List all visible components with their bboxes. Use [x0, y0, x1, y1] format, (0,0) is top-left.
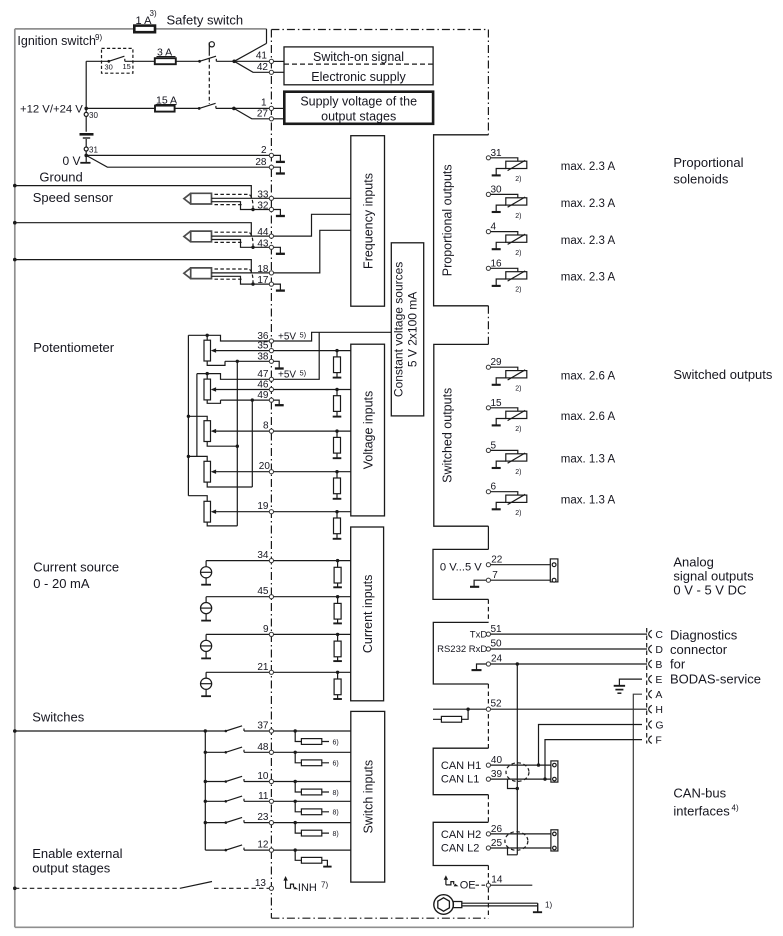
- sensor 3 wires: [212, 273, 272, 284]
- pot R5 bottom wire to ground bus: [207, 522, 237, 526]
- box Switch-on signal / Electronic supply: [284, 47, 433, 85]
- wire I3 to pin 9: [206, 633, 271, 635]
- svg-text:Diagnostics: Diagnostics: [670, 627, 738, 642]
- svg-text:OE: OE: [460, 880, 476, 892]
- pot R3 wiper to pin 8: [214, 430, 272, 432]
- pin 22 wire: [491, 564, 551, 566]
- svg-text:41: 41: [256, 51, 268, 62]
- pot R4: [204, 461, 211, 482]
- svg-text:2): 2): [515, 287, 521, 294]
- svg-text:8: 8: [263, 420, 269, 431]
- speed sensor group: [13, 184, 351, 291]
- pin labels top-left: [255, 51, 268, 168]
- pin 32 internal ground: [271, 210, 280, 216]
- pin 8 wire: [271, 430, 350, 432]
- svg-text:0 - 20 mA: 0 - 20 mA: [33, 576, 90, 591]
- svg-text:32: 32: [257, 201, 269, 212]
- svg-text:48: 48: [257, 742, 269, 753]
- svg-text:37: 37: [257, 721, 269, 732]
- svg-text:G: G: [655, 719, 663, 731]
- pin circles right connector row: [486, 156, 490, 888]
- svg-text:1): 1): [545, 901, 552, 910]
- pin 12 wire: [271, 849, 350, 851]
- output enable row: [434, 875, 553, 915]
- svg-text:27: 27: [257, 108, 269, 119]
- svg-text:8): 8): [333, 831, 339, 838]
- outer ground frame (gray): [15, 29, 634, 927]
- sensor 2 wires: [212, 236, 272, 247]
- analog output connector: [550, 559, 558, 582]
- svg-text:2): 2): [515, 213, 521, 220]
- svg-text:44: 44: [257, 227, 269, 238]
- resistor pin21: [336, 671, 339, 674]
- label Analog signal outputs: [673, 555, 754, 598]
- svg-text:0 V...5 V: 0 V...5 V: [440, 562, 482, 574]
- svg-text:29: 29: [491, 357, 503, 368]
- label Ignition switch 9): [17, 33, 102, 48]
- sensor 2 feed wire: [13, 221, 17, 225]
- pin 45 wire: [271, 596, 350, 598]
- node 0V: [84, 154, 88, 158]
- connector socket E: [649, 675, 652, 683]
- pin 20 wire: [271, 471, 350, 473]
- cable lug: [453, 902, 462, 908]
- wire pin 26: [491, 833, 551, 835]
- svg-text:INH: INH: [298, 882, 317, 894]
- svg-text:42: 42: [257, 62, 269, 73]
- CAN2 shield stub: [508, 789, 518, 855]
- svg-text:CAN H2: CAN H2: [441, 829, 481, 841]
- svg-text:Switch inputs: Switch inputs: [362, 760, 376, 834]
- battery lower column: [85, 139, 87, 163]
- node resistor junction pin52: [466, 708, 469, 711]
- block Voltage inputs: [351, 344, 385, 516]
- node F junction: [543, 777, 546, 780]
- svg-text:2: 2: [261, 145, 267, 156]
- svg-text:31: 31: [491, 148, 503, 159]
- svg-text:7: 7: [492, 570, 498, 581]
- svg-text:50: 50: [491, 639, 503, 650]
- svg-text:9: 9: [263, 624, 269, 635]
- svg-text:1: 1: [261, 97, 267, 108]
- resistor pin19: [335, 510, 338, 513]
- wire pin 51 to connector C: [491, 633, 647, 635]
- svg-text:F: F: [655, 734, 661, 746]
- svg-text:C: C: [655, 629, 663, 641]
- resistor row37: [294, 729, 297, 732]
- boundary solid connector: [487, 344, 489, 526]
- wire pin 24 to connector B: [491, 663, 647, 665]
- svg-text:6: 6: [491, 482, 497, 493]
- svg-text:A: A: [655, 689, 662, 701]
- svg-text:45: 45: [257, 586, 269, 597]
- resistor pin35: [335, 349, 338, 352]
- pot R5: [204, 501, 211, 522]
- pot R5 wiper to pin 19: [214, 511, 272, 513]
- svg-text:CAN H1: CAN H1: [441, 760, 481, 772]
- label Current source 0-20mA: [33, 560, 119, 592]
- wire contact to fuse 3A: [125, 60, 155, 62]
- pot R2: [204, 379, 211, 400]
- svg-text:max. 2.6 A: max. 2.6 A: [561, 411, 616, 423]
- OE input symbol: [445, 878, 447, 885]
- svg-text:6): 6): [333, 761, 339, 768]
- current source I4: [205, 672, 207, 696]
- svg-text:Proportional outputs: Proportional outputs: [441, 164, 455, 276]
- pot R4 top wire to bus A: [188, 456, 207, 461]
- wire contact to junction: [216, 107, 234, 109]
- switch bus vertical: [204, 731, 206, 850]
- svg-text:BODAS-service: BODAS-service: [670, 671, 761, 686]
- block Proportional outputs: [434, 135, 489, 306]
- solenoid output pin 30: [491, 184, 616, 219]
- resistor row12: [294, 848, 297, 851]
- sensor 2 wire into ECU pin44: [271, 214, 350, 236]
- resistor pin20: [335, 470, 338, 473]
- svg-text:Switch-on signal: Switch-on signal: [313, 50, 404, 64]
- pot R2 bottom wire to pin 49: [207, 400, 271, 403]
- svg-text:38: 38: [257, 351, 269, 362]
- switch S11: [204, 800, 207, 803]
- pot R1 bottom wire to pin 38: [207, 361, 271, 365]
- pin 17 internal ground: [271, 284, 280, 290]
- svg-text:max. 2.3 A: max. 2.3 A: [561, 272, 616, 284]
- svg-text:34: 34: [257, 550, 269, 561]
- svg-text:max. 2.3 A: max. 2.3 A: [561, 161, 616, 173]
- pin 43 internal ground: [271, 247, 280, 253]
- pot R2 wiper to pin 46: [214, 389, 272, 391]
- wire contact to junction node: [216, 60, 234, 62]
- svg-text:40: 40: [491, 755, 503, 766]
- pot R3 top wire to bus A: [188, 416, 207, 420]
- ECU boundary dash-dot right upper: [487, 30, 489, 135]
- svg-text:31: 31: [89, 146, 98, 155]
- svg-text:connector: connector: [670, 642, 728, 657]
- wire safety switch drop (gray feed into node): [234, 29, 266, 61]
- svg-text:Ignition switch: Ignition switch: [17, 34, 96, 48]
- sensor 1 feed wire from frame: [13, 184, 17, 188]
- wire I2 to pin 45: [206, 596, 271, 598]
- wire G to CAN H1: [539, 725, 643, 766]
- switch S37 blade: [226, 726, 272, 731]
- svg-text:max. 2.6 A: max. 2.6 A: [561, 371, 616, 383]
- pot R4 ground return vertical: [251, 400, 253, 487]
- svg-text:9): 9): [95, 33, 102, 42]
- block analog output 0V..5V: [433, 549, 488, 599]
- INH input symbol: [285, 879, 287, 889]
- pot R3 bottom wire to ground bus: [207, 442, 237, 447]
- svg-text:11: 11: [258, 791, 269, 802]
- svg-text:15: 15: [123, 62, 131, 71]
- pin 1 stub: [271, 107, 284, 109]
- switch input wires and pull resistors: [271, 729, 350, 894]
- wire I4 to pin 21: [206, 671, 271, 673]
- node +24V junction: [84, 107, 88, 111]
- svg-text:max. 1.3 A: max. 1.3 A: [561, 494, 616, 506]
- ignition switch S1 dashed enclosure: [102, 48, 133, 73]
- node junction 3A row: [232, 60, 236, 64]
- pin 52 wire to connector H: [433, 708, 647, 710]
- pin labels 22 7: [491, 555, 503, 582]
- right side ECU blocks: [433, 135, 488, 918]
- ignition switch contact blade: [109, 56, 125, 61]
- svg-text:30: 30: [105, 63, 113, 72]
- block Constant voltage sources: [391, 243, 423, 416]
- switch S12: [205, 845, 271, 850]
- connector socket B: [649, 660, 652, 668]
- svg-text:RS232 RxD: RS232 RxD: [437, 644, 487, 655]
- label Proportional solenoids: [673, 155, 743, 187]
- pin 28 internal ground: [271, 167, 280, 173]
- pot R4 bottom wire: [207, 482, 252, 487]
- pin 11 wire: [271, 800, 350, 802]
- switch feed wire from frame: [13, 729, 17, 733]
- internal function blocks: [351, 136, 424, 882]
- connector socket D: [649, 645, 652, 653]
- wire pin 50 to connector D: [491, 648, 647, 650]
- pin 24 internal ground: [477, 664, 487, 670]
- wire node to pin 1: [234, 107, 269, 109]
- svg-text:8): 8): [333, 790, 339, 797]
- svg-text:26: 26: [491, 824, 503, 835]
- sensor 2 body: [184, 231, 212, 242]
- pot R1: [204, 340, 211, 361]
- sensor pin labels: [257, 189, 269, 286]
- enable input dashed wire: [13, 887, 17, 891]
- svg-text:2): 2): [515, 426, 521, 433]
- bolt ground stud: [434, 895, 454, 915]
- solenoid output pin 4: [491, 222, 616, 257]
- svg-text:for: for: [670, 657, 686, 672]
- wire node to pin 41: [234, 60, 269, 62]
- svg-text:20: 20: [259, 461, 271, 472]
- svg-text:Safety switch: Safety switch: [167, 13, 244, 28]
- CAN1 twisted pair dashed ellipse: [506, 763, 529, 782]
- fuse F1 1A safety switch: [134, 26, 155, 33]
- sensor 3 body: [184, 268, 212, 279]
- ECU boundary dash-dot left: [270, 30, 272, 919]
- pin 9 wire: [271, 633, 350, 635]
- node pin24 shield junction: [516, 662, 519, 665]
- input divider resistors voltage section: [333, 349, 342, 539]
- pin 37 wire: [271, 730, 350, 732]
- potentiometer section: [33, 330, 391, 526]
- switched output pin 6: [491, 482, 616, 517]
- resistor row48: [294, 751, 297, 754]
- sensor 3 wire into ECU pin18: [271, 230, 350, 273]
- svg-text:39: 39: [491, 769, 503, 780]
- connector socket C: [649, 630, 652, 638]
- svg-text:15: 15: [491, 398, 503, 409]
- connector socket G: [649, 721, 652, 729]
- svg-text:2): 2): [515, 176, 521, 183]
- svg-text:30: 30: [491, 184, 503, 195]
- current source I2: [205, 597, 207, 621]
- pin 49 internal ground: [271, 400, 279, 405]
- switch S23: [204, 821, 207, 824]
- pot R4 wiper to pin 20: [214, 471, 272, 473]
- label 26 25: [491, 824, 503, 849]
- svg-text:14: 14: [491, 875, 503, 886]
- CAN2 twisted pair dashed ellipse: [505, 832, 528, 851]
- proportional solenoid outputs: [491, 148, 773, 517]
- switch pin labels: [255, 721, 269, 889]
- svg-text:25: 25: [491, 838, 503, 849]
- resistor row23: [294, 821, 297, 824]
- connector socket H: [649, 705, 652, 713]
- svg-text:0 V: 0 V: [63, 154, 81, 168]
- svg-text:interfaces: interfaces: [673, 804, 730, 819]
- enable switch blade: [180, 882, 212, 889]
- wire battery positive column: [85, 61, 87, 132]
- svg-text:Constant voltage sources: Constant voltage sources: [392, 262, 406, 397]
- CAN1 shield stub: [508, 779, 518, 788]
- switched output pin 29: [491, 357, 616, 392]
- svg-text:output stages: output stages: [321, 110, 396, 124]
- wire I1 to pin 34: [206, 560, 271, 562]
- pin 48 wire: [271, 751, 350, 753]
- boundary dashed to bottom corner: [487, 866, 489, 919]
- svg-text:Frequency inputs: Frequency inputs: [362, 173, 376, 269]
- svg-text:Analog: Analog: [673, 555, 713, 570]
- svg-text:2): 2): [515, 250, 521, 257]
- analog signal outputs: [470, 555, 754, 598]
- svg-text:output stages: output stages: [32, 860, 111, 875]
- svg-text:4): 4): [732, 804, 739, 813]
- wire +24V row to fuse 15A: [86, 107, 155, 109]
- boundary dashed past pin52: [487, 684, 489, 748]
- wire F to CAN L1: [545, 740, 642, 780]
- diagnostics RS232 section: [433, 624, 761, 928]
- wire 0V to pin 2: [86, 154, 269, 156]
- pin 46 wire: [271, 389, 350, 391]
- block Switch inputs: [351, 711, 385, 882]
- svg-text:16: 16: [491, 258, 503, 269]
- svg-text:5 V 2x100 mA: 5 V 2x100 mA: [406, 292, 420, 367]
- sensor 1 wires: [212, 198, 272, 209]
- pot R3: [204, 421, 211, 442]
- connector socket A: [649, 690, 652, 698]
- resistor pin8: [335, 429, 338, 432]
- pin 27 stub: [271, 118, 284, 120]
- wire ignition row from battery vertical: [86, 60, 109, 62]
- resistor pin45: [336, 595, 339, 598]
- pin 7 wire and ground: [474, 580, 550, 586]
- +5V wire pin 36 to constant voltage sources: [271, 332, 391, 341]
- wire fuse 15A to contact: [175, 107, 200, 109]
- switched output pin 15: [491, 398, 616, 433]
- +5V wire pin 47: [271, 332, 319, 379]
- wire pin 39: [491, 778, 551, 780]
- termination resistor pin52: [433, 709, 468, 719]
- cable end bracket: [537, 903, 539, 912]
- CAN1 terminator connector: [551, 761, 558, 782]
- pin 38 internal ground: [271, 361, 279, 368]
- ECU boundary dash-dot bottom: [271, 917, 488, 919]
- svg-text:CAN L1: CAN L1: [441, 773, 480, 785]
- svg-text:2): 2): [515, 510, 521, 517]
- svg-text:Supply voltage of the: Supply voltage of the: [300, 95, 417, 109]
- terminal 31 circle: [84, 147, 88, 151]
- svg-text:4: 4: [491, 222, 497, 233]
- svg-text:2): 2): [515, 469, 521, 476]
- connector dashed column: [646, 628, 648, 744]
- sensor 3 feed wire: [13, 258, 17, 262]
- svg-text:8): 8): [333, 810, 339, 817]
- svg-text:Ground: Ground: [39, 170, 82, 185]
- pot R1 wiper to pin 35: [214, 350, 272, 352]
- svg-text:solenoids: solenoids: [673, 172, 728, 187]
- svg-text:18: 18: [257, 264, 269, 275]
- pot ground bus: [236, 361, 238, 526]
- pin 10 wire: [271, 781, 350, 783]
- fuse F2 3A: [155, 58, 176, 64]
- block Switched outputs: [434, 344, 489, 526]
- pin circles left connector row: [269, 59, 273, 890]
- switches section: [13, 710, 271, 891]
- wire fuse 3A to safety contact: [176, 60, 200, 62]
- svg-text:5: 5: [491, 440, 497, 451]
- current source section: [33, 550, 351, 699]
- pin 42 stub: [271, 71, 284, 73]
- wire pin 14: [491, 884, 533, 886]
- svg-text:Potentiometer: Potentiometer: [33, 340, 115, 355]
- svg-text:Switched outputs: Switched outputs: [673, 367, 773, 382]
- connector socket F: [649, 736, 652, 744]
- svg-text:TxD: TxD: [470, 630, 488, 641]
- svg-text:46: 46: [257, 380, 269, 391]
- sensor 3 shield dashes: [215, 269, 249, 279]
- safety switch contact blade 3A row: [200, 56, 216, 61]
- svg-text:signal outputs: signal outputs: [673, 569, 754, 584]
- block CAN2: [433, 822, 488, 865]
- svg-text:+12 V/+24 V: +12 V/+24 V: [20, 103, 83, 115]
- pot R5 top wire to bus A: [188, 496, 207, 502]
- earth ground symbol: [614, 685, 625, 687]
- resistor pin34: [336, 559, 339, 562]
- pot R1 top wire to pin 36: [188, 335, 271, 341]
- wire pin 40: [491, 764, 551, 766]
- svg-text:Enable external: Enable external: [32, 846, 122, 861]
- svg-text:33: 33: [257, 189, 269, 200]
- svg-text:Proportional: Proportional: [673, 155, 743, 170]
- svg-text:max. 2.3 A: max. 2.3 A: [561, 198, 616, 210]
- sensor 1 shield dashes: [215, 194, 249, 204]
- svg-text:22: 22: [491, 555, 503, 566]
- svg-text:24: 24: [491, 654, 503, 665]
- svg-text:5): 5): [300, 368, 307, 377]
- svg-text:21: 21: [257, 662, 269, 673]
- CAN2 terminator connector: [551, 830, 558, 851]
- solenoid output pin 31: [491, 148, 616, 183]
- potentiometer bus B: [196, 374, 198, 457]
- svg-text:7): 7): [321, 880, 328, 889]
- svg-text:CAN L2: CAN L2: [441, 843, 480, 855]
- block Current inputs: [351, 527, 384, 701]
- svg-text:Speed sensor: Speed sensor: [33, 190, 114, 205]
- sensor 2 shield dashes: [215, 232, 249, 242]
- svg-text:49: 49: [257, 390, 269, 401]
- wire pin 25: [491, 847, 551, 849]
- svg-text:13: 13: [255, 878, 267, 889]
- pin 41 stub: [271, 60, 284, 62]
- pin 21 wire: [271, 671, 350, 673]
- block Frequency inputs: [351, 136, 385, 307]
- cable double line: [462, 903, 538, 906]
- block CAN1: [433, 748, 488, 795]
- resistor row11: [294, 800, 297, 803]
- resistor row10: [294, 780, 297, 783]
